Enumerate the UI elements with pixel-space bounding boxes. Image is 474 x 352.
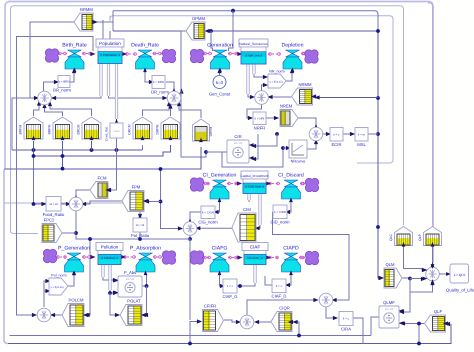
svg-text:x1/x2: x1/x2 bbox=[113, 130, 120, 133]
svg-text:NREM: NREM bbox=[280, 104, 293, 109]
svg-text:k × BRN: k × BRN bbox=[59, 80, 70, 84]
svg-text:d Pollution d: d Pollution d bbox=[101, 256, 118, 260]
svg-text:BRPM: BRPM bbox=[48, 124, 52, 134]
svg-text:P_Abs: P_Abs bbox=[124, 270, 136, 275]
svg-text:k × e: k × e bbox=[333, 132, 340, 136]
svg-text:k × CIDN: k × CIDN bbox=[274, 210, 286, 214]
svg-text:Crwd_Rat: Crwd_Rat bbox=[105, 127, 109, 141]
svg-text:d CI/dt Invst d: d CI/dt Invst d bbox=[245, 185, 264, 189]
svg-text:CIQR: CIQR bbox=[279, 306, 289, 311]
svg-text:Death_Rate: Death_Rate bbox=[131, 43, 159, 49]
svg-text:DRPM: DRPM bbox=[156, 124, 160, 134]
svg-text:CIAFD: CIAFD bbox=[283, 246, 299, 252]
svg-text:Natural_Resources: Natural_Resources bbox=[239, 42, 268, 46]
svg-text:y = f(x1,x2): y = f(x1,x2) bbox=[270, 81, 283, 84]
svg-text:BRMM: BRMM bbox=[80, 7, 93, 12]
svg-text:CIAF_D: CIAF_D bbox=[272, 294, 287, 299]
svg-text:x1 / x2: x1 / x2 bbox=[49, 202, 58, 206]
svg-text:BR_norm: BR_norm bbox=[53, 88, 71, 93]
svg-text:DR_norm: DR_norm bbox=[151, 90, 169, 95]
svg-text:Pollution: Pollution bbox=[101, 245, 119, 250]
svg-text:FPM: FPM bbox=[132, 185, 141, 190]
svg-text:P_Generation: P_Generation bbox=[58, 246, 90, 252]
svg-text:k × c: k × c bbox=[276, 284, 283, 288]
svg-text:Gen_Const: Gen_Const bbox=[209, 92, 231, 97]
svg-text:DRCM: DRCM bbox=[128, 124, 132, 134]
svg-text:BRFM: BRFM bbox=[19, 125, 23, 135]
svg-text:x1 / x2: x1 / x2 bbox=[126, 277, 135, 281]
svg-text:k × QLS: k × QLS bbox=[454, 273, 466, 277]
svg-text:NRcurve: NRcurve bbox=[291, 160, 306, 164]
svg-text:Capital_Investment: Capital_Investment bbox=[240, 174, 268, 178]
svg-text:CIRA: CIRA bbox=[341, 327, 351, 332]
svg-text:QLC: QLC bbox=[389, 233, 393, 241]
svg-text:Food_Ratio: Food_Ratio bbox=[43, 212, 65, 217]
svg-text:NRMM: NRMM bbox=[298, 82, 312, 87]
svg-text:CIAF: CIAF bbox=[250, 245, 261, 250]
svg-text:k × m: k × m bbox=[358, 132, 366, 136]
svg-text:Depletion: Depletion bbox=[282, 43, 304, 49]
svg-text:k × CIGN: k × CIGN bbox=[202, 210, 214, 214]
svg-text:CIAF_G: CIAF_G bbox=[222, 294, 237, 299]
svg-text:MSL: MSL bbox=[357, 142, 366, 147]
svg-text:d NaR_res d: d NaR_res d bbox=[245, 53, 262, 57]
svg-text:CID_norm: CID_norm bbox=[270, 220, 290, 225]
svg-text:DRFM: DRFM bbox=[209, 126, 213, 136]
svg-text:Quality_of_Life: Quality_of_Life bbox=[446, 288, 474, 293]
svg-text:BRCM: BRCM bbox=[77, 124, 81, 134]
svg-text:QLF: QLF bbox=[434, 309, 443, 314]
svg-text:CI_Generation: CI_Generation bbox=[203, 173, 237, 179]
svg-text:k=0: k=0 bbox=[216, 80, 224, 85]
svg-text:POLCM: POLCM bbox=[69, 298, 84, 303]
svg-text:k0+CIAF_0: k0+CIAF_0 bbox=[247, 256, 262, 260]
svg-text:FPC2: FPC2 bbox=[44, 218, 55, 223]
svg-text:NR_norm: NR_norm bbox=[269, 70, 284, 74]
svg-text:Pol_Ratio: Pol_Ratio bbox=[131, 233, 150, 238]
svg-text:P_Absorption: P_Absorption bbox=[130, 246, 161, 252]
svg-text:k × NRI: k × NRI bbox=[255, 116, 265, 120]
svg-text:QLP: QLP bbox=[418, 233, 422, 241]
svg-text:x1 / x2: x1 / x2 bbox=[385, 307, 394, 311]
svg-text:CIM: CIM bbox=[243, 207, 251, 212]
svg-text:Generation: Generation bbox=[207, 43, 233, 49]
svg-text:QLMF: QLMF bbox=[383, 300, 395, 305]
svg-text:Birth_Rate: Birth_Rate bbox=[62, 43, 87, 49]
svg-text:d Population d: d Population d bbox=[100, 53, 120, 57]
svg-text:NRFR: NRFR bbox=[254, 126, 266, 131]
svg-text:Population: Population bbox=[99, 41, 121, 46]
svg-text:CIAFG: CIAFG bbox=[212, 246, 228, 252]
svg-text:k × DRN: k × DRN bbox=[153, 80, 164, 84]
svg-text:x1 / x2: x1 / x2 bbox=[234, 141, 243, 145]
svg-text:CIG_norm: CIG_norm bbox=[198, 220, 218, 225]
svg-text:k × c: k × c bbox=[343, 317, 350, 321]
svg-text:x1 / x2: x1 / x2 bbox=[136, 223, 145, 227]
svg-text:CFIFR: CFIFR bbox=[204, 304, 216, 309]
svg-text:OPMM: OPMM bbox=[192, 16, 206, 21]
svg-text:QLM: QLM bbox=[385, 262, 395, 267]
svg-text:FCM: FCM bbox=[97, 176, 107, 181]
svg-text:POLAT: POLAT bbox=[127, 299, 141, 304]
svg-text:ECIR: ECIR bbox=[331, 142, 341, 147]
svg-text:Pol_norm: Pol_norm bbox=[51, 274, 66, 278]
svg-text:y = f(x1,x2): y = f(x1,x2) bbox=[51, 286, 64, 289]
svg-text:CI_Discard: CI_Discard bbox=[278, 173, 304, 179]
svg-text:CIR: CIR bbox=[234, 134, 241, 139]
svg-text:k × c: k × c bbox=[227, 284, 234, 288]
